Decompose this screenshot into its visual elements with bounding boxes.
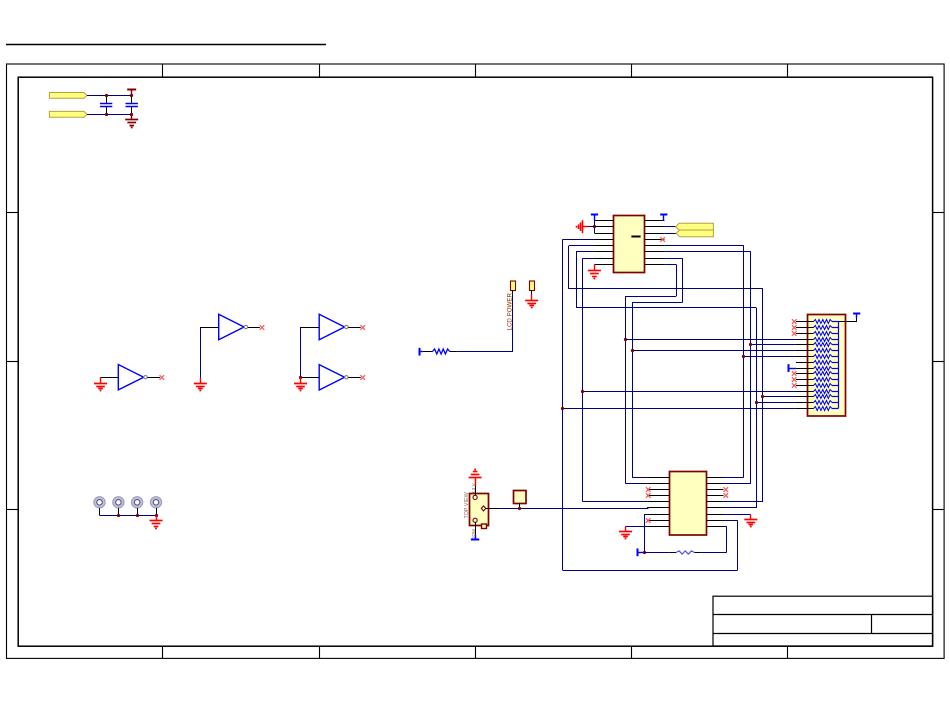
ground xyxy=(94,377,107,390)
inverter U3A xyxy=(118,365,143,390)
pin xyxy=(594,220,613,222)
wire bus xyxy=(625,296,627,483)
power T VCC xyxy=(853,313,860,318)
ground xyxy=(588,265,601,279)
pin xyxy=(647,501,669,503)
pin xyxy=(645,226,665,228)
junction xyxy=(105,94,108,97)
pin xyxy=(475,522,477,535)
pin xyxy=(695,552,701,554)
ground xyxy=(619,526,632,538)
pin xyxy=(645,239,665,241)
wire xyxy=(664,226,675,228)
mounting hole MH1 xyxy=(94,497,105,508)
resistor pack RP1 xyxy=(808,315,846,417)
wire xyxy=(756,402,796,404)
wire xyxy=(724,526,727,528)
pin xyxy=(707,483,724,485)
wire xyxy=(676,265,678,297)
junction xyxy=(561,407,564,410)
wire xyxy=(563,408,796,410)
wire xyxy=(200,327,202,378)
pin xyxy=(707,507,724,509)
pin xyxy=(707,477,724,479)
pin xyxy=(348,377,360,379)
pin xyxy=(707,520,724,522)
wire xyxy=(839,321,857,323)
pin xyxy=(645,264,665,266)
bubble xyxy=(244,325,247,328)
junction xyxy=(130,94,133,97)
pin xyxy=(248,327,260,329)
mounting hole MH3 xyxy=(131,497,142,508)
pin xyxy=(796,408,814,410)
no-connect xyxy=(646,487,651,492)
wire xyxy=(569,288,763,290)
power bar xyxy=(789,364,796,372)
wire xyxy=(856,313,858,322)
wire xyxy=(726,526,728,552)
pin xyxy=(796,344,814,346)
wire xyxy=(664,264,676,266)
junction xyxy=(299,376,302,379)
no-connect xyxy=(792,331,797,336)
pin xyxy=(647,495,669,497)
IC U2 xyxy=(670,472,707,536)
pin xyxy=(645,220,665,222)
label U1 xyxy=(631,236,640,238)
wire xyxy=(724,501,763,503)
wire xyxy=(644,514,646,552)
pin xyxy=(707,501,724,503)
junction xyxy=(593,225,596,228)
pin 2 diamond xyxy=(481,506,486,511)
pin xyxy=(796,368,814,370)
power T VCC xyxy=(660,214,667,220)
pin xyxy=(707,526,724,528)
connector notch xyxy=(482,524,487,529)
wire xyxy=(724,520,738,522)
pin xyxy=(594,251,613,253)
IC U1 xyxy=(614,216,645,273)
wire xyxy=(632,350,796,352)
wire xyxy=(589,226,595,228)
pin xyxy=(796,402,814,404)
bubble xyxy=(345,325,348,328)
no-connect xyxy=(160,375,165,380)
ground xyxy=(150,515,163,528)
no-connect xyxy=(724,493,729,498)
port RX xyxy=(676,230,713,237)
wire xyxy=(645,514,648,516)
pin xyxy=(796,396,814,398)
junction xyxy=(136,514,139,517)
wire xyxy=(594,220,596,233)
wire xyxy=(632,302,683,304)
pin xyxy=(137,508,139,515)
ground up xyxy=(469,470,482,487)
wire bus xyxy=(762,289,764,502)
wire xyxy=(576,307,756,309)
wire xyxy=(563,239,595,241)
wire serial xyxy=(500,508,649,510)
no-connect xyxy=(792,377,797,382)
wire xyxy=(563,570,737,572)
power bar xyxy=(419,348,423,356)
pin xyxy=(594,245,613,247)
pin xyxy=(796,350,814,352)
pin xyxy=(594,258,613,260)
pad LCD+ xyxy=(511,281,516,291)
ground xyxy=(744,514,757,526)
junction xyxy=(155,514,158,517)
label COM xyxy=(471,529,476,540)
no-connect xyxy=(646,493,651,498)
junction xyxy=(117,514,120,517)
wire xyxy=(583,258,595,260)
capacitor C1 xyxy=(100,95,112,114)
inverter U4B xyxy=(319,365,344,390)
port P1 PWR xyxy=(49,93,87,99)
pin xyxy=(348,327,360,329)
wire xyxy=(632,477,647,479)
testpad TP1 xyxy=(514,491,527,504)
ground xyxy=(194,378,207,391)
wire xyxy=(664,245,743,247)
wire xyxy=(576,252,578,308)
pin xyxy=(796,385,814,387)
pin xyxy=(594,264,613,266)
wire xyxy=(569,245,595,247)
pin xyxy=(519,503,521,508)
wire xyxy=(568,246,570,289)
wire bus xyxy=(743,246,745,478)
pin 1 circle xyxy=(473,495,477,499)
connector J2 body xyxy=(470,494,489,526)
inverter U3B xyxy=(219,314,244,339)
wire bus xyxy=(582,258,584,502)
pin xyxy=(512,291,514,294)
wire xyxy=(512,294,514,352)
pin xyxy=(486,508,500,510)
wire xyxy=(724,507,757,509)
pin xyxy=(647,514,669,516)
pin xyxy=(647,477,669,479)
wire xyxy=(583,501,648,503)
no-connect xyxy=(260,325,265,330)
wire xyxy=(645,552,670,554)
pin xyxy=(99,508,101,515)
pin xyxy=(796,362,814,364)
pin xyxy=(647,526,669,528)
mounting hole MH4 xyxy=(150,497,161,508)
wire xyxy=(724,514,751,516)
bubble xyxy=(345,376,348,379)
pin xyxy=(670,552,676,554)
pin xyxy=(707,514,724,516)
junction xyxy=(631,349,634,352)
wire xyxy=(763,396,796,398)
pin xyxy=(531,291,533,295)
wire bus xyxy=(756,308,758,508)
wire xyxy=(737,520,739,570)
no-connect xyxy=(792,371,797,376)
power T VCC xyxy=(591,214,598,220)
pin xyxy=(301,377,320,379)
wire xyxy=(456,351,512,353)
pin xyxy=(450,351,457,353)
pin xyxy=(645,233,665,235)
wire xyxy=(100,515,157,517)
label 3.3V xyxy=(471,482,476,494)
pin xyxy=(796,339,814,341)
wire bus xyxy=(562,239,564,570)
pin xyxy=(594,226,613,228)
pin xyxy=(645,251,665,253)
wire xyxy=(682,258,684,302)
pin xyxy=(796,379,814,381)
wire xyxy=(576,251,594,253)
pin xyxy=(647,483,669,485)
ground xyxy=(294,377,307,390)
inverter U4A xyxy=(319,314,344,339)
no-connect xyxy=(792,325,797,330)
junction xyxy=(749,343,752,346)
no-connect xyxy=(646,518,651,523)
pin xyxy=(796,333,814,335)
pin xyxy=(707,495,724,497)
pin xyxy=(645,258,665,260)
wire xyxy=(724,483,751,485)
mounting hole MH2 xyxy=(113,497,124,508)
pin xyxy=(594,239,613,241)
junction xyxy=(518,507,521,510)
wire xyxy=(751,344,796,346)
junction xyxy=(624,338,627,341)
wire xyxy=(625,483,647,485)
pin 3 circle xyxy=(473,518,477,522)
pin xyxy=(796,321,814,323)
pin xyxy=(647,489,669,491)
no-connect xyxy=(360,325,365,330)
pin xyxy=(475,486,477,495)
pin xyxy=(200,327,218,329)
pin xyxy=(301,327,320,329)
wire xyxy=(87,95,132,97)
wire xyxy=(664,233,676,235)
pin xyxy=(156,508,158,515)
power bar xyxy=(638,548,645,556)
junction xyxy=(643,551,646,554)
wire xyxy=(625,296,676,298)
ground xyxy=(125,114,138,127)
no-connect xyxy=(360,375,365,380)
capacitor C2 xyxy=(126,95,138,114)
pin xyxy=(101,377,119,379)
label LCD POWER xyxy=(507,292,514,330)
wire xyxy=(626,526,648,528)
pin xyxy=(796,373,814,375)
junction xyxy=(130,113,133,116)
pin xyxy=(707,489,724,491)
pin xyxy=(647,507,669,509)
wire xyxy=(744,356,796,358)
no-connect xyxy=(792,319,797,324)
power T down xyxy=(471,535,479,540)
port P2 GND xyxy=(49,111,87,117)
resistor R2 xyxy=(676,551,695,554)
resistor R1 xyxy=(433,349,450,354)
ground left xyxy=(577,220,589,233)
ground xyxy=(525,295,538,308)
wire xyxy=(724,477,744,479)
RP1 resistors xyxy=(814,320,839,411)
pin xyxy=(423,351,433,353)
wire xyxy=(87,114,132,116)
power VCC bar xyxy=(127,89,136,95)
junction xyxy=(755,401,758,404)
wire xyxy=(300,327,302,377)
junction xyxy=(761,395,764,398)
svg-text:LCD POWER: LCD POWER xyxy=(507,292,514,330)
no-connect xyxy=(792,383,797,388)
wire xyxy=(625,339,796,341)
pin xyxy=(118,508,120,515)
no-connect xyxy=(724,487,729,492)
pin xyxy=(796,327,814,329)
pin xyxy=(594,233,613,235)
pin xyxy=(148,377,161,379)
wire xyxy=(701,552,727,554)
RP1 bus xyxy=(838,322,840,409)
wire xyxy=(583,391,796,393)
wire bus xyxy=(632,302,634,477)
label TOP VIEW xyxy=(464,491,470,518)
pin xyxy=(645,245,665,247)
wire xyxy=(664,258,682,260)
pad LCD- xyxy=(530,281,535,291)
pin xyxy=(796,391,814,393)
wire bus xyxy=(750,252,752,484)
junction xyxy=(742,355,745,358)
junction xyxy=(581,390,584,393)
junction xyxy=(105,113,108,116)
pin xyxy=(796,356,814,358)
wire xyxy=(664,251,750,253)
port TX xyxy=(676,223,714,230)
svg-text:TOP VIEW: TOP VIEW xyxy=(464,491,470,518)
pin xyxy=(647,520,669,522)
no-connect xyxy=(660,237,665,242)
bubble xyxy=(144,376,147,379)
